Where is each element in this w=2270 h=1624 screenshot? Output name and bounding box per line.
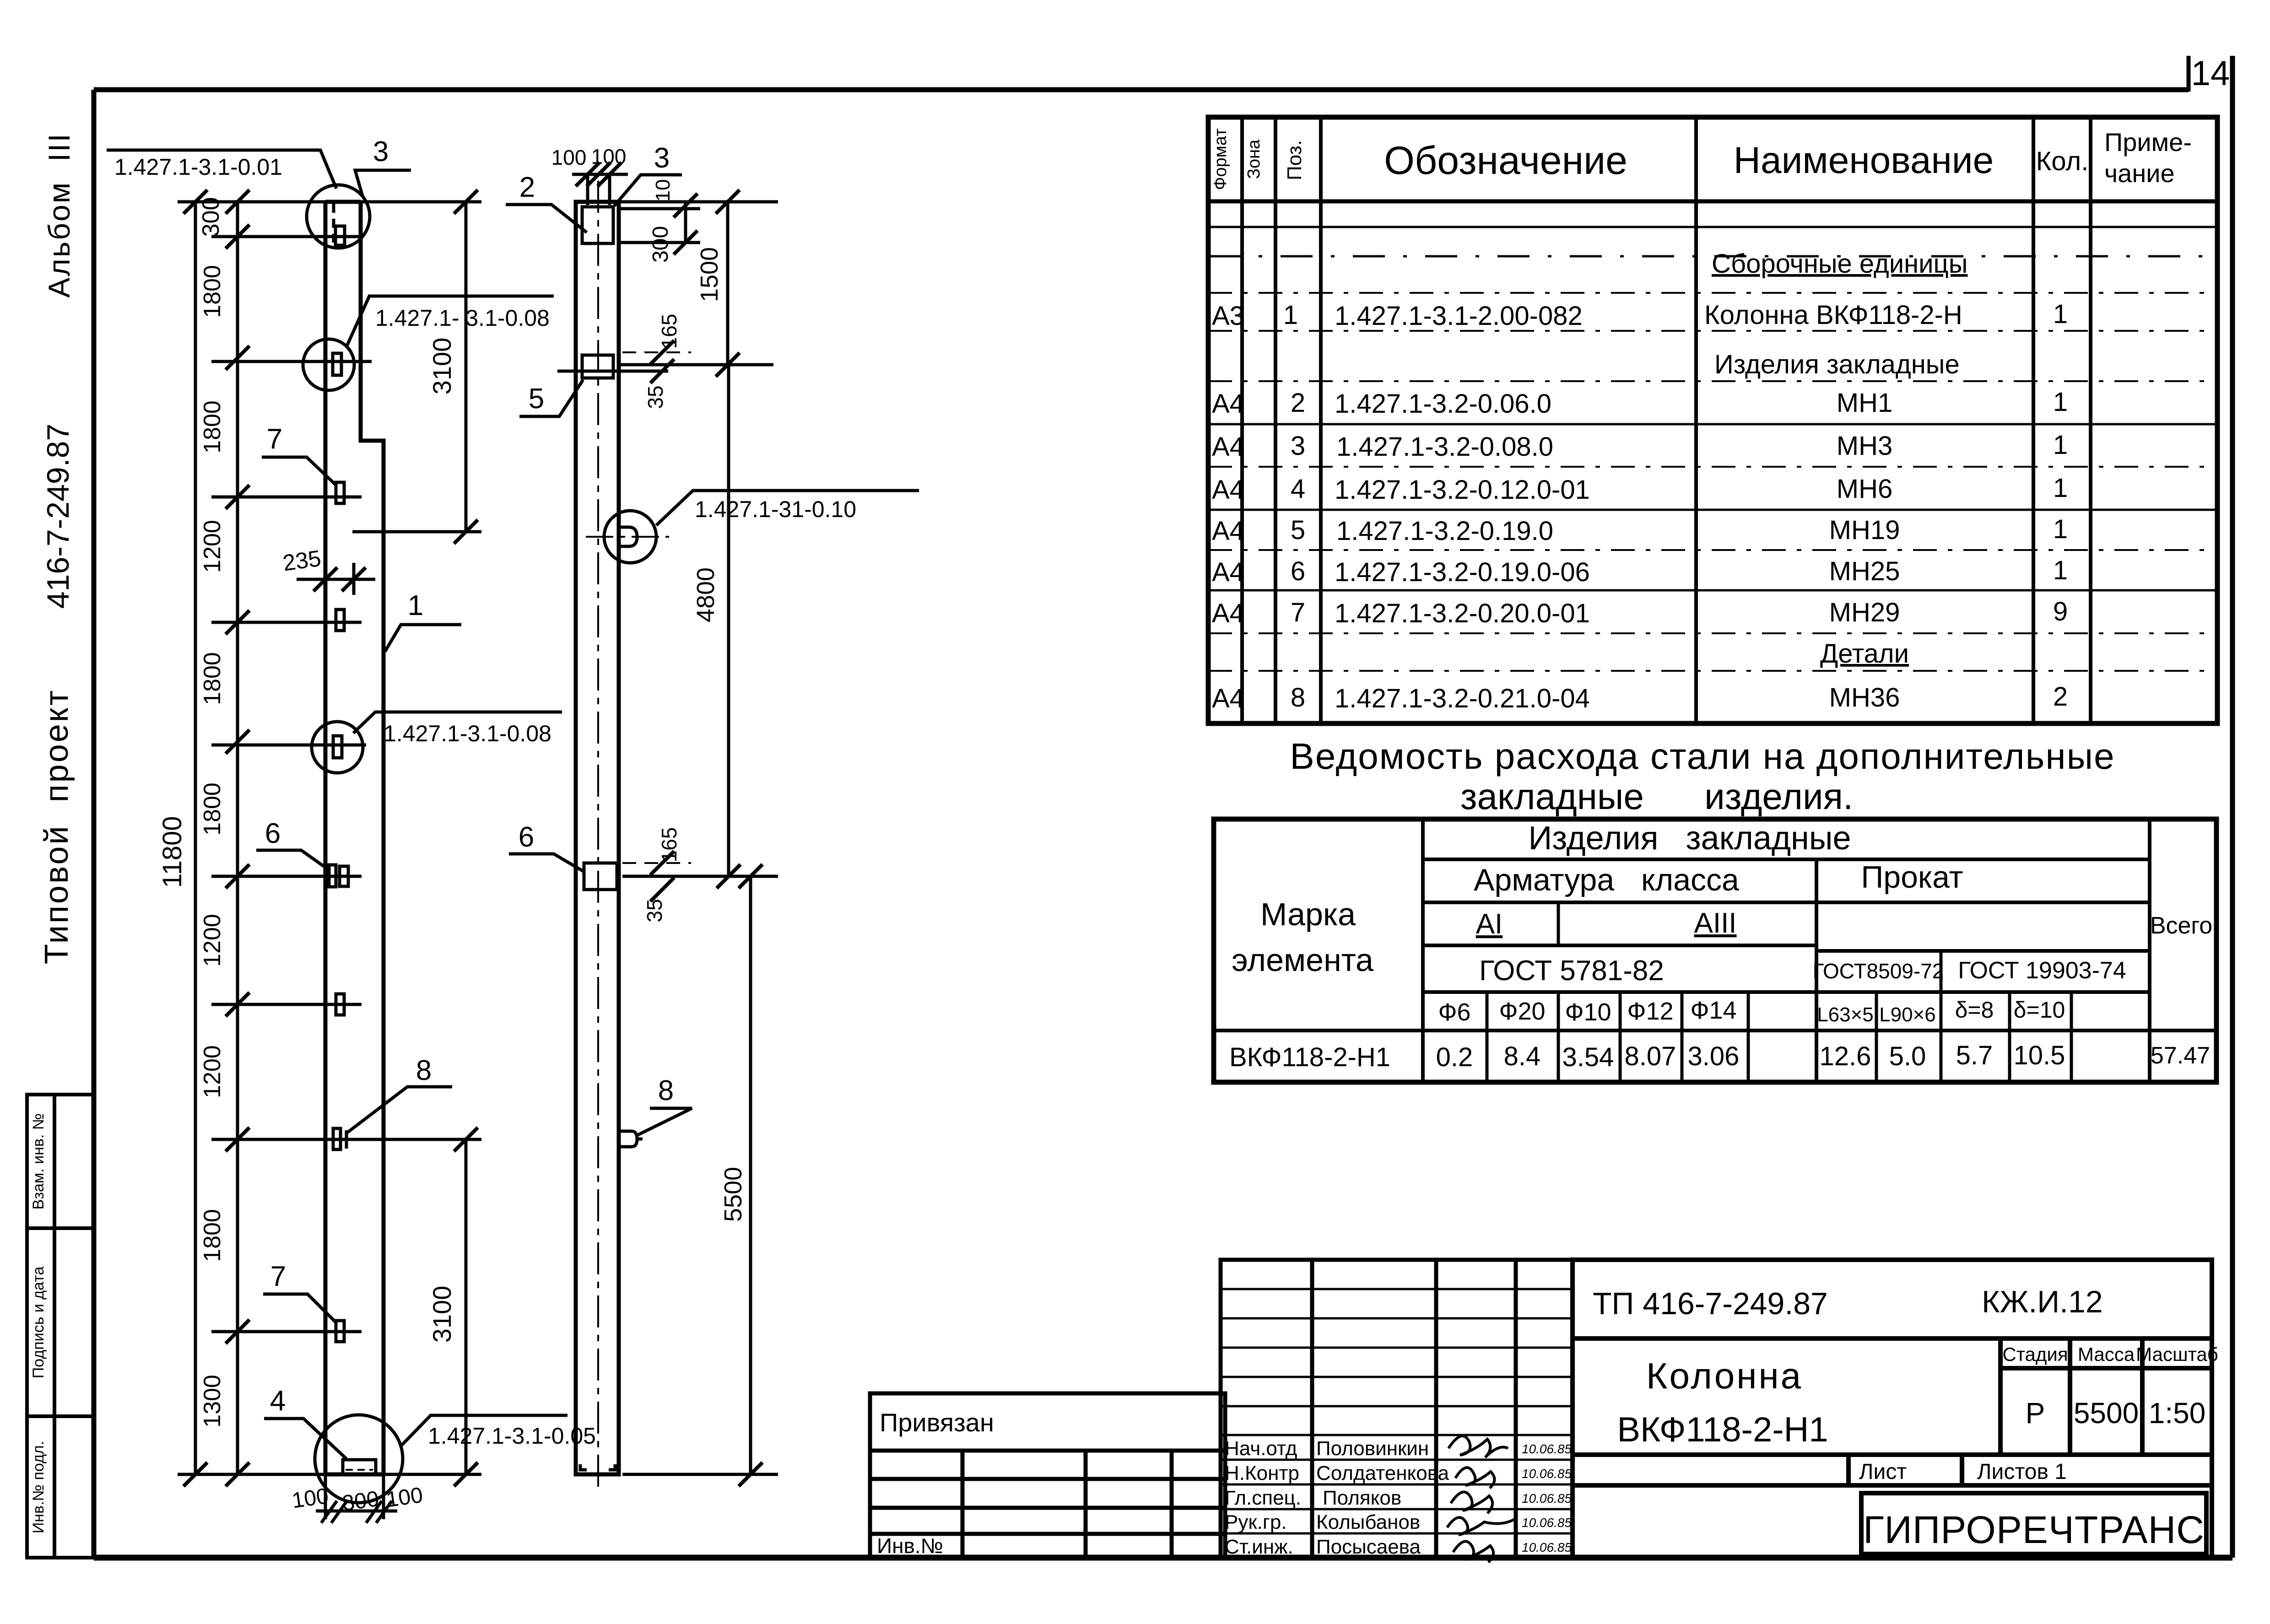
svg-text:А4: А4 (1212, 389, 1244, 419)
svg-text:4800: 4800 (692, 567, 719, 622)
svg-text:А4: А4 (1212, 475, 1244, 505)
extension lines view1 (178, 202, 481, 1474)
svg-text:Ведомость расхода стали на доп: Ведомость расхода стали на дополнительны… (1290, 736, 2115, 777)
date column entries (1522, 1442, 1572, 1554)
svg-text:Поз.: Поз. (1283, 140, 1306, 180)
svg-text:3.54: 3.54 (1562, 1042, 1614, 1072)
svg-text:0.2: 0.2 (1436, 1042, 1473, 1072)
svg-text:165: 165 (657, 314, 681, 349)
svg-text:Обозначение: Обозначение (1384, 139, 1627, 183)
svg-text:δ=8: δ=8 (1955, 997, 1994, 1023)
svg-text:7: 7 (267, 423, 282, 455)
svg-text:1.427.1-3.2-0.19.0: 1.427.1-3.2-0.19.0 (1336, 516, 1553, 546)
svg-text:1.427.1-3.1-0.08: 1.427.1-3.1-0.08 (384, 721, 551, 746)
embed plate pos5 (582, 355, 613, 378)
svg-text:9: 9 (2053, 597, 2068, 626)
embed plate pos6 (double) (329, 865, 336, 887)
svg-text:3: 3 (654, 142, 670, 174)
svg-text:100: 100 (290, 1484, 330, 1513)
privyazan table (870, 1393, 1225, 1558)
svg-text:элемента: элемента (1232, 942, 1373, 978)
svg-text:1800: 1800 (199, 265, 226, 318)
svg-text:57.47: 57.47 (2151, 1042, 2210, 1069)
svg-text:Инв.№: Инв.№ (877, 1534, 943, 1558)
svg-text:Ф12: Ф12 (1627, 998, 1673, 1025)
svg-text:Р: Р (2026, 1397, 2045, 1430)
svg-text:Взам. инв. №: Взам. инв. № (30, 1113, 47, 1210)
svg-text:А4: А4 (1212, 516, 1244, 546)
svg-text:1.427.1-3.2-0.19.0-06: 1.427.1-3.2-0.19.0-06 (1335, 557, 1590, 587)
svg-text:МН6: МН6 (1837, 474, 1892, 504)
svg-text:3100: 3100 (427, 338, 456, 395)
svg-text:закладные изделия.: закладные изделия. (1460, 776, 1853, 817)
chain labels (rotated) (198, 197, 226, 1428)
svg-text:ГОСТ8509-72: ГОСТ8509-72 (1813, 959, 1944, 983)
svg-text:1.427.1-3.2-0.20.0-01: 1.427.1-3.2-0.20.0-01 (1335, 599, 1590, 628)
svg-text:Типовой проект: Типовой проект (38, 689, 75, 964)
dimension 235 (352, 563, 356, 595)
svg-text:Изделия закладные: Изделия закладные (1528, 820, 1851, 857)
chain tick marks (226, 190, 249, 214)
dimension line 3100 lower (465, 1139, 468, 1474)
column outline view2 (576, 202, 619, 1474)
svg-text:ТП 416-7-249.87: ТП 416-7-249.87 (1593, 1286, 1828, 1321)
svg-text:100: 100 (591, 145, 627, 168)
svg-text:Детали: Детали (1820, 639, 1909, 669)
bottom dimension 100-300-100 (316, 1474, 397, 1519)
svg-text:6: 6 (1291, 556, 1305, 586)
svg-text:МН1: МН1 (1837, 388, 1892, 418)
svg-text:1800: 1800 (199, 400, 226, 453)
callout 1.427.1-3.1-0.01 (107, 150, 336, 189)
svg-text:1.427.1- 3.1-0.08: 1.427.1- 3.1-0.08 (375, 305, 550, 331)
steel table main verticals (1423, 819, 2150, 1082)
dim 1500 view2 (716, 190, 740, 214)
embed plate pos4 bottom (343, 1460, 376, 1474)
svg-text:1500: 1500 (696, 247, 723, 302)
svg-text:Ф6: Ф6 (1438, 998, 1470, 1026)
spec table row lines (1208, 227, 2217, 671)
svg-text:L90×6: L90×6 (1879, 1004, 1936, 1026)
svg-text:1: 1 (2053, 473, 2068, 503)
svg-text:1.427.1-3.2-0.21.0-04: 1.427.1-3.2-0.21.0-04 (1335, 684, 1590, 713)
svg-text:5.7: 5.7 (1956, 1041, 1993, 1070)
svg-text:1800: 1800 (199, 652, 226, 705)
svg-text:5: 5 (529, 383, 544, 415)
right side dimensions view2 (621, 202, 778, 1474)
svg-text:КЖ.И.12: КЖ.И.12 (1982, 1284, 2103, 1319)
svg-text:L63×5: L63×5 (1817, 1004, 1874, 1026)
svg-text:35: 35 (643, 385, 667, 409)
svg-text:1200: 1200 (199, 520, 226, 573)
callout 1.427.1-31-0.10 (656, 491, 919, 525)
dimension chain line view1 (236, 202, 239, 1474)
svg-text:Привязан: Привязан (880, 1408, 994, 1437)
spec table header bottom line (1208, 200, 2217, 204)
signature table grid (1221, 1260, 1573, 1558)
svg-text:Масса: Масса (2078, 1343, 2135, 1365)
svg-text:35: 35 (643, 899, 666, 922)
svg-text:1.427.1-3.1-0.05: 1.427.1-3.1-0.05 (428, 1423, 596, 1449)
svg-text:А4: А4 (1212, 684, 1244, 713)
svg-text:1: 1 (1283, 300, 1298, 330)
embed plate pos2 top (582, 207, 613, 243)
svg-text:Н.Контр: Н.Контр (1225, 1462, 1299, 1484)
dim 5500 view2 (739, 864, 762, 888)
steel table size row (1438, 997, 2065, 1026)
svg-text:1: 1 (408, 590, 423, 621)
svg-text:11800: 11800 (157, 816, 187, 888)
svg-text:Колыбанов: Колыбанов (1316, 1511, 1420, 1533)
svg-text:7: 7 (1291, 598, 1305, 627)
svg-text:1: 1 (2053, 387, 2068, 417)
svg-text:АIII: АIII (1694, 907, 1736, 939)
top dimension 100 100 view2 (572, 174, 628, 205)
svg-text:165: 165 (657, 827, 681, 863)
svg-text:ВКФ118-2-Н1: ВКФ118-2-Н1 (1229, 1042, 1390, 1072)
svg-text:1.427.1-3.2-0.12.0-01: 1.427.1-3.2-0.12.0-01 (1335, 475, 1590, 505)
svg-text:Ф14: Ф14 (1690, 997, 1736, 1024)
svg-text:8.4: 8.4 (1504, 1041, 1541, 1071)
svg-text:12.6: 12.6 (1820, 1041, 1871, 1071)
svg-text:8: 8 (658, 1075, 674, 1106)
svg-text:1:50: 1:50 (2149, 1397, 2206, 1430)
svg-text:Половинкин: Половинкин (1316, 1437, 1429, 1460)
dim 4800 view2 (717, 864, 740, 888)
svg-text:235: 235 (281, 545, 322, 576)
embed plate MH1 top (dashed edge + anchor) (332, 204, 335, 243)
svg-text:Всего: Всего (2150, 912, 2212, 939)
svg-text:3: 3 (1291, 431, 1305, 461)
dimension line 11800 (outer vertical) (194, 202, 197, 1474)
svg-text:чание: чание (2104, 159, 2175, 188)
svg-text:Посысаева: Посысаева (1316, 1536, 1421, 1558)
svg-text:1.427.1-31-0.10: 1.427.1-31-0.10 (695, 496, 856, 522)
svg-text:Арматура класса: Арматура класса (1474, 863, 1739, 897)
svg-text:1: 1 (2053, 556, 2068, 585)
svg-text:Нач.отд: Нач.отд (1225, 1437, 1297, 1460)
svg-text:А4: А4 (1212, 557, 1244, 587)
svg-text:Формат: Формат (1211, 129, 1230, 190)
callout 1.427.1-3.1-0.08 second (353, 712, 562, 733)
svg-text:416-7-249.87: 416-7-249.87 (41, 424, 76, 609)
bottom corner dashes view2 (580, 1464, 587, 1470)
svg-text:1: 1 (2053, 430, 2068, 460)
svg-text:6: 6 (519, 821, 534, 853)
svg-text:1.427.1-3.2-0.06.0: 1.427.1-3.2-0.06.0 (1335, 389, 1551, 419)
steel table outer box (1214, 819, 2216, 1082)
svg-text:Стадия: Стадия (2002, 1343, 2068, 1365)
svg-text:10.06.85: 10.06.85 (1522, 1540, 1572, 1554)
detail circle MH3 second (312, 722, 363, 773)
embed plate pos7 upper (336, 482, 344, 503)
embed plate pos8 (333, 1128, 340, 1149)
svg-text:8: 8 (1291, 683, 1305, 712)
svg-text:А3: А3 (1212, 301, 1244, 331)
svg-text:300: 300 (649, 226, 673, 263)
svg-text:ВКФ118-2-Н1: ВКФ118-2-Н1 (1617, 1410, 1828, 1449)
svg-text:2: 2 (519, 172, 535, 203)
svg-text:Поляков: Поляков (1323, 1487, 1401, 1509)
embed plate mid2 (336, 994, 344, 1015)
svg-text:МН29: МН29 (1829, 598, 1900, 627)
svg-text:Ф20: Ф20 (1499, 998, 1545, 1025)
anchor mark inside circle (619, 527, 637, 546)
svg-text:Масштаб: Масштаб (2136, 1343, 2218, 1365)
svg-text:ГИПРОРЕЧТРАНС: ГИПРОРЕЧТРАНС (1863, 1508, 2205, 1551)
svg-text:10.06.85: 10.06.85 (1522, 1442, 1572, 1456)
embed plate MH3 (333, 353, 341, 375)
svg-text:Рук.гр.: Рук.гр. (1225, 1511, 1287, 1533)
svg-text:3100: 3100 (427, 1286, 456, 1343)
svg-text:Сборочные единицы: Сборочные единицы (1712, 249, 1967, 279)
svg-text:ГОСТ 5781-82: ГОСТ 5781-82 (1479, 955, 1664, 987)
title block right section grid (1573, 1260, 2212, 1558)
svg-text:8: 8 (416, 1055, 432, 1086)
dimension line 3100 upper (465, 202, 468, 532)
dim 165/35 at plate5 (622, 351, 691, 353)
svg-text:Наименование: Наименование (1734, 140, 1994, 181)
embed plate mid1 (336, 610, 344, 631)
svg-text:Подпись и дата: Подпись и дата (30, 1267, 47, 1379)
svg-text:14: 14 (2191, 54, 2230, 93)
dim 165/35 at plate6 (622, 862, 691, 864)
svg-text:МН36: МН36 (1829, 683, 1900, 712)
embed plate pos8 view2 (619, 1131, 637, 1147)
svg-text:Ф10: Ф10 (1565, 998, 1611, 1026)
spec table outer box (1208, 117, 2217, 723)
svg-text:8.07: 8.07 (1625, 1041, 1676, 1071)
svg-text:Приме-: Приме- (2104, 128, 2192, 156)
callout 1.427.1-3.1-0.08 first (346, 296, 554, 347)
svg-text:Инв.№ подл.: Инв.№ подл. (30, 1441, 47, 1533)
svg-text:ГОСТ 19903-74: ГОСТ 19903-74 (1958, 957, 2126, 984)
svg-text:5.0: 5.0 (1889, 1041, 1926, 1071)
svg-text:10.5: 10.5 (2014, 1041, 2065, 1070)
detail circle MH3 (303, 339, 354, 390)
embed plate pos7 lower (336, 1321, 344, 1342)
svg-text:А4: А4 (1212, 432, 1244, 462)
svg-text:Солдатенкова: Солдатенкова (1316, 1462, 1449, 1484)
page number tick (2187, 56, 2191, 92)
svg-text:Листов 1: Листов 1 (1977, 1460, 2067, 1484)
svg-text:1.427.1-3.1-2.00-082: 1.427.1-3.1-2.00-082 (1335, 301, 1583, 331)
svg-text:Ст.инж.: Ст.инж. (1225, 1536, 1293, 1558)
svg-text:Альбом III: Альбом III (42, 132, 76, 298)
svg-text:6: 6 (265, 818, 281, 849)
svg-text:1.427.1-3.2-0.08.0: 1.427.1-3.2-0.08.0 (1336, 432, 1553, 462)
svg-text:7: 7 (270, 1261, 286, 1292)
margin stamp strip boxes (27, 1095, 94, 1558)
svg-text:АI: АI (1476, 908, 1503, 940)
svg-text:Изделия закладные: Изделия закладные (1714, 350, 1960, 379)
svg-text:5500: 5500 (719, 1167, 747, 1222)
svg-text:300: 300 (340, 1487, 380, 1516)
embed plate pos6 view2 (584, 863, 617, 890)
spec rows text (1212, 249, 2068, 713)
svg-text:1: 1 (2053, 299, 2068, 329)
dim 10 label view2 (674, 194, 697, 217)
svg-text:1: 1 (2053, 514, 2068, 544)
svg-text:10.06.85: 10.06.85 (1522, 1491, 1572, 1505)
column centerline view2 (597, 181, 599, 1492)
svg-text:А4: А4 (1212, 599, 1244, 628)
svg-text:1200: 1200 (199, 1045, 226, 1098)
steel table sub verticals (1487, 902, 2071, 1082)
svg-text:1800: 1800 (199, 782, 226, 836)
dim 300 view2 (674, 231, 697, 254)
svg-text:МН3: МН3 (1837, 431, 1892, 461)
svg-text:Колонна ВКФ118-2-Н: Колонна ВКФ118-2-Н (1704, 300, 1962, 330)
signature squiggles (1447, 1436, 1516, 1562)
callout 1.427.1-3.1-0.05 (400, 1415, 567, 1447)
svg-text:δ=10: δ=10 (2014, 997, 2065, 1023)
svg-text:МН19: МН19 (1829, 515, 1900, 545)
svg-text:3.06: 3.06 (1688, 1041, 1740, 1071)
organization box (1861, 1493, 2206, 1554)
svg-text:Кол.: Кол. (2036, 146, 2089, 176)
svg-text:100: 100 (551, 146, 587, 169)
svg-text:1800: 1800 (199, 1209, 226, 1262)
svg-text:4: 4 (1291, 474, 1305, 504)
svg-text:Зона: Зона (1244, 139, 1264, 179)
signature rows text (1225, 1437, 1449, 1558)
svg-text:МН25: МН25 (1829, 556, 1900, 586)
anchor loop detail view2 (636, 1138, 643, 1141)
svg-text:Колонна: Колонна (1646, 1355, 1803, 1396)
spec table column lines (1242, 117, 2091, 723)
svg-text:2: 2 (1291, 388, 1305, 418)
svg-text:5: 5 (1291, 515, 1305, 545)
detail circle 3 (top) (307, 185, 370, 248)
svg-text:1200: 1200 (199, 914, 226, 967)
svg-text:10: 10 (652, 179, 674, 202)
svg-text:2: 2 (2053, 682, 2068, 712)
column outline view1 (325, 202, 384, 1474)
svg-text:Лист: Лист (1859, 1460, 1907, 1484)
svg-text:10.06.85: 10.06.85 (1522, 1467, 1572, 1481)
svg-text:1300: 1300 (199, 1375, 226, 1428)
detail circle 4 (bottom) (315, 1415, 403, 1503)
svg-text:4: 4 (270, 1385, 286, 1417)
svg-text:Гл.спец.: Гл.спец. (1225, 1487, 1301, 1509)
svg-text:1.427.1-3.1-0.01: 1.427.1-3.1-0.01 (114, 154, 282, 180)
steel table data row (1229, 1041, 2210, 1072)
svg-text:Прокат: Прокат (1861, 860, 1963, 895)
embed plate in circle2 (333, 736, 342, 758)
svg-text:100: 100 (384, 1483, 424, 1512)
steel table horizontals (1214, 859, 2216, 1031)
svg-text:10.06.85: 10.06.85 (1522, 1516, 1572, 1530)
svg-text:3: 3 (373, 136, 389, 167)
detail circle 0.10 (604, 511, 656, 563)
svg-text:5500: 5500 (2074, 1397, 2139, 1430)
svg-text:Марка: Марка (1260, 896, 1356, 932)
